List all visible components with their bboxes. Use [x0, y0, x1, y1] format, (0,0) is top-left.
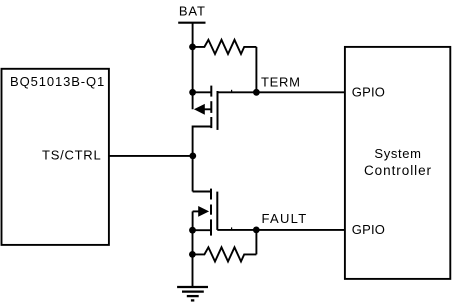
pin label TS/CTRL [42, 148, 101, 163]
Q1 channel bar top segment (source contact) [210, 86, 212, 97]
label System Controller [364, 146, 432, 178]
Q2 channel bar bottom segment (source contact) [210, 219, 212, 235]
wire TS/CTRL vertical (Q1 drain to Q2 drain) [192, 156, 194, 192]
node TERM [253, 89, 260, 96]
svg-text:TERM: TERM [261, 75, 301, 90]
svg-text:BQ51013B-Q1: BQ51013B-Q1 [10, 74, 105, 89]
label BQ51013B-Q1 [10, 74, 105, 89]
transistor Q2 (N-channel MOSFET) [193, 189, 218, 236]
wire source to ground [192, 230, 194, 287]
net label FAULT [262, 211, 308, 226]
Q1 source stub [193, 91, 212, 93]
wire BAT vertical down to PMOS source/body [192, 23, 194, 110]
Q1 gate bar [217, 91, 219, 130]
svg-text:FAULT: FAULT [262, 211, 308, 226]
svg-text:System: System [374, 146, 421, 161]
Q2 body stub wire [193, 210, 200, 212]
wire R1 to TERM node [255, 47, 257, 92]
Q1 channel bar bottom segment (drain contact) [210, 117, 212, 128]
Q2 source stub [193, 229, 211, 231]
Q1 body arrow (points left, P-channel) [194, 104, 205, 115]
Q2 body arrow (points right, N-channel) [198, 206, 209, 217]
net label BAT [179, 4, 206, 19]
Q1 drain stub [193, 127, 212, 156]
svg-text:BAT: BAT [179, 4, 206, 19]
svg-text:Controller: Controller [364, 163, 432, 178]
net label TERM [261, 75, 301, 90]
Q2 channel bar top segment (drain contact) [210, 189, 212, 200]
Q2 gate bar [216, 192, 218, 230]
Q2 body to source wire [192, 211, 194, 230]
wire TERM (Q1 gate to GPIO) [218, 91, 345, 93]
node R2 tap junction [189, 251, 196, 258]
wire FAULT (Q2 gate to GPIO) [217, 229, 345, 231]
wire R2 to FAULT node [255, 230, 257, 255]
resistor R2 (FAULT pull-down) [192, 247, 256, 261]
pin label GPIO (top) [352, 85, 385, 100]
junction tick on TERM wire [231, 90, 233, 93]
IC box U1 BQ51013B-Q1 [2, 69, 109, 245]
junction tick on FAULT wire [231, 227, 233, 230]
node Q2 source/ground junction [189, 227, 196, 234]
box U2 System Controller [345, 47, 450, 279]
Q1 channel bar middle segment (body contact) [210, 101, 212, 113]
Q2 drain stub [193, 191, 211, 193]
Q1 body stub wire [204, 108, 212, 110]
ground [177, 287, 208, 300]
resistor R1 (BAT to TERM pull-up) [193, 40, 257, 54]
node FAULT [253, 227, 260, 234]
wire TS/CTRL to gates [109, 155, 193, 157]
svg-text:GPIO: GPIO [352, 222, 385, 237]
pin label GPIO (bottom) [352, 222, 385, 237]
node TS/CTRL junction [189, 153, 196, 160]
transistor Q1 (P-channel MOSFET) [193, 86, 218, 156]
BAT terminal bar [178, 22, 205, 24]
svg-text:TS/CTRL: TS/CTRL [42, 148, 101, 163]
Q2 channel bar middle segment (body contact) [210, 205, 212, 215]
node BAT/R1 tap junction [189, 44, 196, 51]
svg-text:GPIO: GPIO [352, 85, 385, 100]
node Q1 source at BAT wire [189, 89, 196, 96]
